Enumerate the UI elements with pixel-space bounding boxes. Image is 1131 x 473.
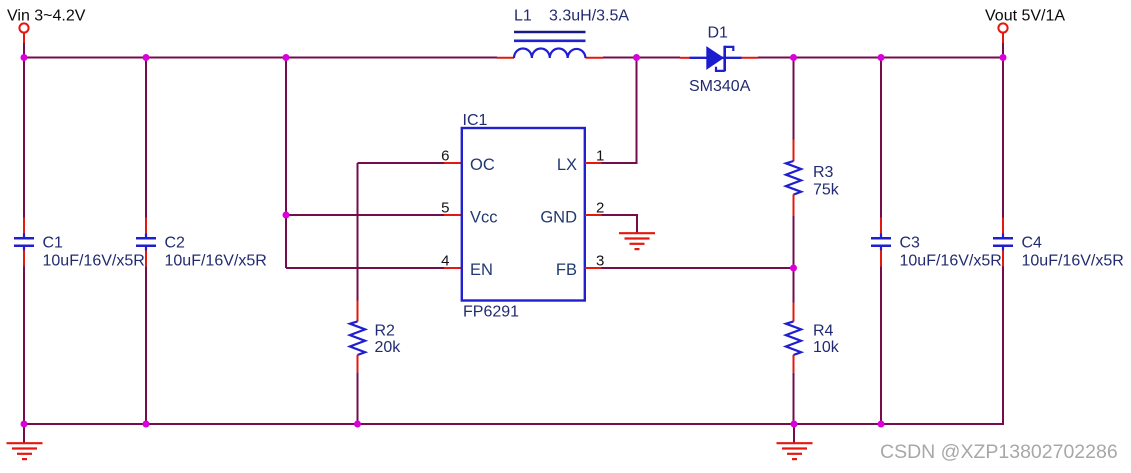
capacitor C1	[14, 218, 34, 267]
wire R3 to FB node	[793, 216, 795, 268]
inductor L1	[497, 32, 603, 58]
wire bottom rail	[23, 423, 1004, 425]
node top rail Vout	[1000, 54, 1007, 61]
node top rail Vin	[21, 54, 28, 61]
wire ground stem mid	[793, 424, 795, 443]
svg-text:IC1: IC1	[463, 112, 488, 129]
svg-text:75k: 75k	[813, 182, 840, 199]
resistor R4	[786, 303, 801, 373]
ground at GND pin	[619, 233, 655, 249]
svg-text:Vout 5V/1A: Vout 5V/1A	[985, 8, 1065, 25]
svg-text:5: 5	[441, 200, 449, 217]
svg-text:10k: 10k	[813, 339, 840, 356]
svg-text:R4: R4	[813, 323, 834, 340]
wire C2 column upper	[145, 58, 147, 218]
svg-text:CSDN @XZP13802702286: CSDN @XZP13802702286	[880, 441, 1118, 463]
node top rail C3	[878, 54, 885, 61]
svg-text:OC: OC	[470, 156, 495, 174]
node Vcc junction	[283, 212, 290, 219]
wire pin1 stub	[585, 162, 602, 164]
svg-text:FP6291: FP6291	[463, 304, 519, 321]
svg-text:10uF/16V/x5R: 10uF/16V/x5R	[43, 253, 145, 270]
svg-text:LX: LX	[557, 156, 577, 174]
svg-text:3: 3	[596, 252, 604, 269]
node bottom rail C2	[143, 421, 150, 428]
wire R3 column upper	[793, 58, 795, 141]
svg-text:GND: GND	[540, 208, 577, 226]
svg-text:6: 6	[441, 147, 449, 164]
wire pin4 stub	[444, 267, 461, 269]
svg-text:SM340A: SM340A	[689, 78, 751, 95]
node top rail Vcc column	[283, 54, 290, 61]
wire C4 column lower	[1002, 267, 1004, 426]
svg-text:10uF/16V/x5R: 10uF/16V/x5R	[900, 253, 1002, 270]
node top rail R3	[790, 54, 797, 61]
svg-text:10uF/16V/x5R: 10uF/16V/x5R	[1022, 253, 1124, 270]
wire C4 column upper	[1002, 58, 1004, 218]
wire Vcc column vertical	[285, 58, 287, 269]
wire ground stem left	[23, 424, 25, 443]
capacitor C3	[871, 218, 891, 267]
resistor R3	[786, 140, 801, 217]
node top rail LX	[633, 54, 640, 61]
wire C2 column lower	[145, 267, 147, 425]
wire C3 column upper	[880, 58, 882, 218]
svg-text:Vin 3~4.2V: Vin 3~4.2V	[7, 8, 86, 25]
wire OC column to R2	[357, 163, 359, 301]
node bottom rail C3	[878, 421, 885, 428]
svg-text:C4: C4	[1022, 235, 1043, 252]
wire Vcc horizontal	[286, 214, 444, 216]
svg-text:R3: R3	[813, 164, 834, 181]
ground bottom mid	[777, 443, 813, 459]
ground bottom left	[7, 443, 43, 459]
wire Vin stub	[23, 33, 25, 43]
node bottom rail left	[21, 421, 28, 428]
wire top rail mid (L1 to D1)	[603, 57, 680, 59]
svg-text:C1: C1	[43, 235, 64, 252]
svg-text:3.3uH/3.5A: 3.3uH/3.5A	[549, 8, 629, 25]
svg-text:C2: C2	[165, 235, 186, 252]
node FB junction	[790, 265, 797, 272]
svg-text:C3: C3	[900, 235, 921, 252]
wire pin6 stub	[444, 162, 461, 164]
wire R4 to bottom rail	[793, 373, 795, 424]
diode D1	[680, 46, 758, 72]
IC U1 box	[462, 128, 585, 301]
wire C1 column lower	[23, 267, 25, 425]
wire pin3 stub	[585, 267, 602, 269]
svg-text:L1: L1	[514, 8, 532, 25]
wire top rail left	[23, 57, 497, 59]
node top rail C2	[143, 54, 150, 61]
svg-text:Vcc: Vcc	[470, 208, 498, 226]
wire Vout stub	[1002, 33, 1004, 43]
wire C1 column upper	[23, 58, 25, 218]
wire GND pin wire	[602, 215, 638, 233]
wire FB horizontal	[602, 267, 794, 269]
capacitor C4	[993, 218, 1013, 267]
wire LX to top rail	[602, 58, 637, 164]
wire OC horizontal	[358, 162, 445, 164]
wire pin2 stub	[585, 214, 602, 216]
svg-text:10uF/16V/x5R: 10uF/16V/x5R	[165, 253, 267, 270]
capacitor C2	[136, 218, 156, 267]
terminal Vin	[19, 23, 28, 32]
svg-text:4: 4	[441, 252, 449, 269]
wire EN horizontal	[286, 267, 444, 269]
wire top rail right (D1 to Vout)	[758, 57, 1004, 59]
svg-text:R2: R2	[375, 323, 396, 340]
wire FB node to R4	[793, 268, 795, 303]
svg-text:1: 1	[596, 147, 604, 164]
wire C3 column lower	[880, 267, 882, 425]
resistor R2	[350, 301, 365, 373]
svg-text:20k: 20k	[375, 339, 402, 356]
terminal Vout	[998, 23, 1007, 32]
node bottom rail ground	[791, 421, 798, 428]
wire R2 to bottom rail	[357, 372, 359, 424]
wire pin5 stub	[444, 214, 461, 216]
svg-text:FB: FB	[556, 261, 577, 279]
node bottom rail R2	[354, 421, 361, 428]
svg-text:D1: D1	[708, 25, 729, 42]
svg-text:EN: EN	[470, 261, 493, 279]
